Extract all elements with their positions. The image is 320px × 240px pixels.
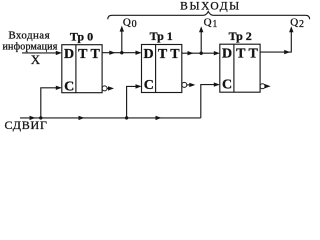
svg-text:T T: T T <box>236 47 258 62</box>
svg-text:D: D <box>64 47 74 62</box>
svg-text:Тр 1: Тр 1 <box>150 29 173 43</box>
svg-text:Тр 2: Тр 2 <box>229 29 252 43</box>
svg-text:D: D <box>222 47 232 62</box>
svg-text:СДВИГ: СДВИГ <box>5 118 48 132</box>
svg-text:информация: информация <box>2 41 57 52</box>
svg-text:ВЫХОДЫ: ВЫХОДЫ <box>180 1 241 13</box>
svg-text:Тр 0: Тр 0 <box>70 29 93 43</box>
svg-text:C: C <box>64 79 74 94</box>
svg-text:C: C <box>222 77 232 92</box>
svg-text:Q0: Q0 <box>123 17 137 30</box>
svg-text:C: C <box>144 78 154 93</box>
svg-text:T T: T T <box>158 47 180 62</box>
svg-text:Входная: Входная <box>8 30 50 42</box>
svg-text:Х: Х <box>31 52 41 67</box>
svg-text:D: D <box>144 47 154 62</box>
svg-text:T T: T T <box>78 47 100 62</box>
svg-text:Q1: Q1 <box>204 17 218 30</box>
svg-text:Q2: Q2 <box>290 17 304 30</box>
